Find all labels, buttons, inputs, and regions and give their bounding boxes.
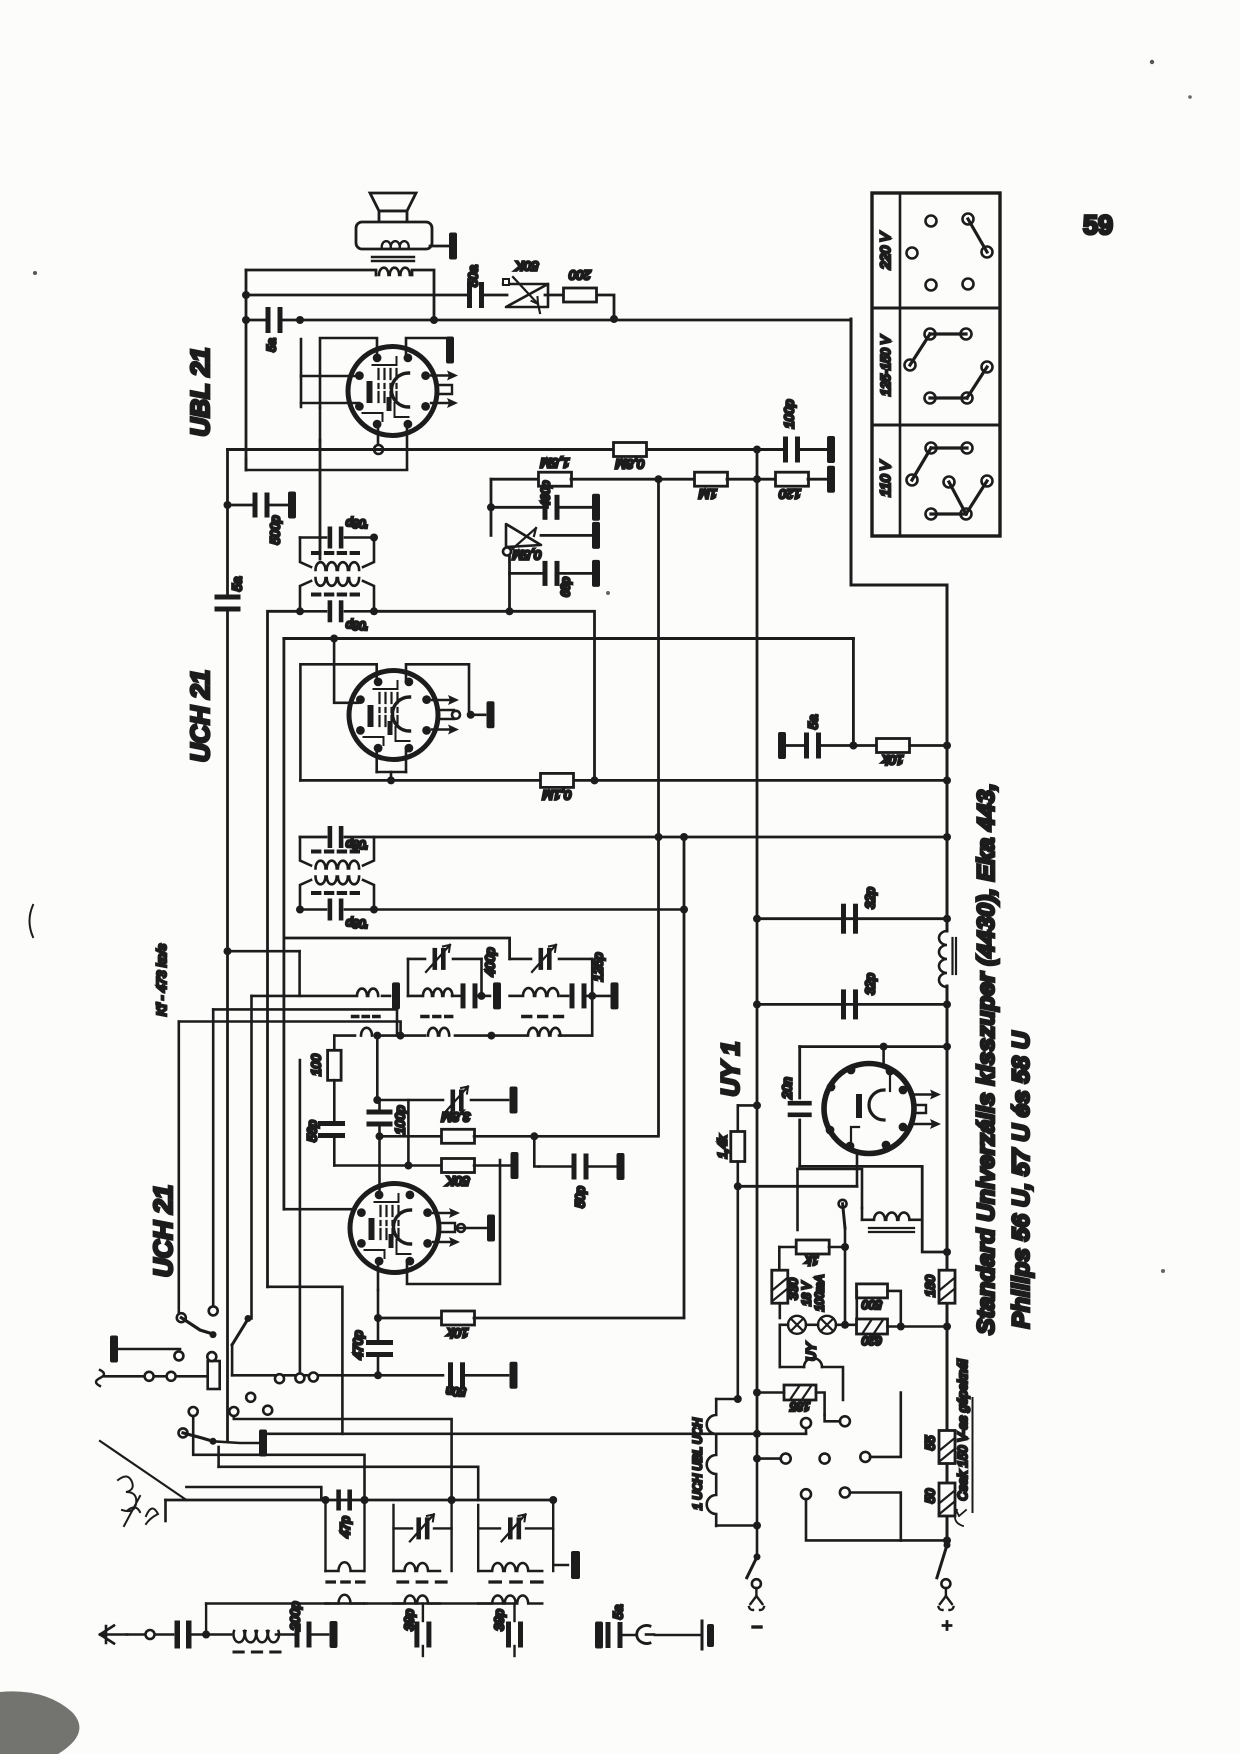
junction 491 y507 xyxy=(487,503,495,511)
selector 110V terminal 5 xyxy=(982,476,993,487)
switch blade diag 1 xyxy=(232,1319,248,1345)
wire 50K row b xyxy=(474,1164,510,1167)
wire avc row y507 xyxy=(491,506,543,509)
coil row1 small xyxy=(357,989,378,996)
terminal bar y1100 xyxy=(510,1087,518,1114)
resistor 120 xyxy=(776,472,809,486)
svg-text:'03p: '03p xyxy=(346,838,369,852)
phono hook xyxy=(637,1626,650,1644)
junction IF1 top right xyxy=(370,534,378,542)
G2 cap lead xyxy=(422,1604,424,1622)
trimmer cap osc 1 xyxy=(426,945,450,972)
G3 box right xyxy=(552,1500,554,1571)
capacitor 200p xyxy=(295,1622,312,1648)
selector 125-150V terminal 4 xyxy=(982,362,993,373)
wire left column x246 xyxy=(245,270,248,470)
choke on HT spine xyxy=(939,931,947,987)
arrow UCH2 lower xyxy=(433,1237,460,1247)
junction 32p row1 right xyxy=(943,915,951,923)
selector 220V terminal 4 xyxy=(982,247,993,258)
svg-text:3,8M: 3,8M xyxy=(441,1110,470,1125)
wire UY1 cathode down xyxy=(856,1153,859,1186)
terminal bar antenna xyxy=(330,1621,338,1648)
wire UY1 box left lower xyxy=(798,1120,801,1166)
osc core dashes 2 xyxy=(422,1015,452,1018)
switch contact b3 xyxy=(174,1351,183,1360)
wire mains bus y320 b xyxy=(283,319,851,322)
svg-text:500: 500 xyxy=(862,1298,882,1312)
junction spine 1326 xyxy=(943,1323,951,1331)
routing line L1 xyxy=(234,1416,452,1500)
capacitor 39p G2 xyxy=(414,1622,431,1648)
output transformer core line 2 xyxy=(372,260,414,262)
wire y638 corner down right xyxy=(852,639,855,746)
junction UCH1 cathode bus xyxy=(387,776,395,784)
selector 125-150V terminal 5 xyxy=(925,393,936,404)
chassis hook xyxy=(646,1633,654,1636)
scan speck c xyxy=(33,271,37,275)
wire x684 long xyxy=(683,837,686,1317)
wire UY1 cathode to 14k node xyxy=(738,1185,857,1188)
G2 core dashes xyxy=(398,1580,446,1583)
wire 5a filter row b xyxy=(819,744,876,747)
selector 220V terminal 1 xyxy=(926,216,937,227)
resistor 50K osc xyxy=(442,1159,475,1173)
tap circle 1 xyxy=(801,1418,811,1428)
wire x299 down to coils xyxy=(298,951,301,996)
junction 10k spine xyxy=(943,742,951,750)
wire coil row1 a xyxy=(252,995,356,998)
wire blade bottom drop xyxy=(231,1345,234,1376)
wire 0.1M bus a xyxy=(300,779,540,782)
svg-text:185: 185 xyxy=(790,1400,810,1414)
G3 box left xyxy=(477,1505,479,1571)
wire UY1 box left top xyxy=(800,1045,947,1048)
wire y1375 row b xyxy=(378,1374,443,1377)
capacitor 470p xyxy=(366,1340,393,1357)
wire left column x227 upper xyxy=(226,450,229,597)
voltage selector outer box xyxy=(872,193,1000,536)
wire switch2 bar link xyxy=(213,1441,258,1443)
wire UY1 box left upper xyxy=(798,1047,801,1098)
svg-text:59: 59 xyxy=(1083,210,1113,240)
capacitor 5a phono xyxy=(606,1622,623,1648)
minus switch pivot xyxy=(754,1553,761,1560)
resistor 185 xyxy=(784,1385,816,1400)
capacitor 400p xyxy=(543,495,560,520)
pencil diagonal mark xyxy=(100,1441,186,1500)
UCH2 side tab xyxy=(441,1223,455,1232)
wire avc drop to pot xyxy=(490,507,493,535)
wire UCH2 grid from mixer xyxy=(378,1136,381,1194)
antenna coil core xyxy=(234,1651,280,1654)
G1 core dashes xyxy=(327,1580,364,1583)
G1 row2 sides b xyxy=(364,1602,367,1604)
coil row1 right xyxy=(523,988,558,996)
switch arm 1 xyxy=(181,1318,213,1334)
wire antenna row e xyxy=(311,1633,328,1636)
G1 box right xyxy=(363,1500,365,1571)
selector 125-150V terminal 6 xyxy=(962,393,973,404)
wire coil row1 b xyxy=(382,995,390,998)
trimmer cap G3 xyxy=(502,1514,526,1541)
terminal bar switch 2 xyxy=(259,1430,267,1457)
UBL side tab xyxy=(438,385,452,394)
wire y1375 row c xyxy=(465,1374,508,1377)
filament choke coil xyxy=(874,1213,909,1220)
wire tap 6 drop xyxy=(806,1499,901,1540)
tap circle 5 xyxy=(860,1452,870,1462)
wire UY bump lead b xyxy=(780,1366,804,1369)
svg-text:220 V: 220 V xyxy=(877,231,893,270)
wire trimmer row right b xyxy=(559,958,592,961)
UCH1 side tab xyxy=(440,710,454,719)
wire 14k stub xyxy=(738,1104,757,1107)
svg-text:180: 180 xyxy=(923,1274,938,1296)
selector 220V terminal 5 xyxy=(926,280,937,291)
wire band column x213 xyxy=(212,1009,215,1305)
switch contact c4 xyxy=(246,1393,255,1402)
wire choke right lead xyxy=(911,1219,922,1222)
UY1 side tab xyxy=(914,1105,926,1113)
capacitor 5a left column xyxy=(215,595,241,612)
svg-text:39p: 39p xyxy=(402,1609,417,1631)
wire 1k to lamps link xyxy=(844,1247,847,1325)
svg-text:UCH 21: UCH 21 xyxy=(148,1185,178,1277)
terminal bar avc 400p xyxy=(592,494,600,521)
scan smudge bottom-left corner xyxy=(0,1691,79,1754)
capacitor 20n xyxy=(788,1101,812,1117)
scan speck b xyxy=(1188,95,1192,99)
svg-text:10k: 10k xyxy=(881,753,903,768)
capacitor 32p lower xyxy=(841,989,858,1019)
wire 185 left xyxy=(757,1391,784,1394)
potentiometer 50K xyxy=(503,277,548,313)
antenna coil xyxy=(234,1631,280,1642)
wire HT bus below 50 xyxy=(946,1517,949,1545)
junction bus B x658 xyxy=(655,475,663,483)
wire IF1 bottom left down xyxy=(268,611,301,1287)
svg-text:50a: 50a xyxy=(466,265,481,287)
terminal bar 500p xyxy=(288,492,296,519)
wire trimmer right drop xyxy=(591,959,594,1036)
junction bus B x757 xyxy=(753,475,761,483)
terminal bar row1 b xyxy=(493,982,501,1009)
wire bus y837 b xyxy=(345,836,947,839)
terminal bar row1 a xyxy=(392,982,400,1009)
routing line L4 drop xyxy=(477,1467,480,1500)
capacitor .03p IF1 bottom xyxy=(328,600,344,622)
junction 10k row xyxy=(374,1314,382,1322)
IF1 upper can xyxy=(300,538,374,568)
wire UCH2 anode down xyxy=(377,1290,380,1318)
selector 125-150V terminal 2 xyxy=(961,329,972,340)
wire chain bottom xyxy=(716,1524,757,1527)
capacitor 100p mixer xyxy=(367,1110,393,1127)
potentiometer 0.5M xyxy=(506,524,541,547)
wire x283 down xyxy=(282,639,285,1210)
wire IF1 bottom xyxy=(300,610,326,613)
selector 110V link e xyxy=(931,512,966,515)
speaker voice coil xyxy=(382,241,409,248)
switch pivot 2 xyxy=(210,1438,217,1445)
wire UY1 box bottom xyxy=(800,1166,947,1252)
switch contact b2 xyxy=(167,1372,176,1381)
choke core mark 2 xyxy=(955,938,957,974)
wire band column x180 xyxy=(178,1022,181,1314)
wire pot to bar y535 xyxy=(541,534,592,537)
terminal bar 68p xyxy=(592,560,600,587)
svg-text:1 UCH UBL UCH: 1 UCH UBL UCH xyxy=(691,1418,705,1510)
svg-text:0,1M: 0,1M xyxy=(542,788,571,803)
junction lamp row x845 xyxy=(841,1321,849,1329)
wire trimmer row right xyxy=(510,958,531,961)
junction 3.8M x534 xyxy=(530,1132,538,1140)
svg-text:620: 620 xyxy=(862,1334,882,1348)
G2 coil row1 xyxy=(394,1563,441,1571)
wire coil row2 c xyxy=(455,1034,526,1037)
coil row2 mid xyxy=(428,1028,449,1036)
resistor 1M xyxy=(695,472,728,486)
junction y638 x334 xyxy=(330,635,338,643)
svg-text:Standard Univerzális kisszuper: Standard Univerzális kisszuper (4430), E… xyxy=(973,783,1000,1335)
padder trimmer box xyxy=(208,1361,220,1389)
junction UY1 box spine xyxy=(943,1043,951,1051)
wire bus B y479 c xyxy=(727,478,778,481)
wire coil bottoms link xyxy=(206,1602,514,1604)
wire coil row2 b xyxy=(382,1034,425,1037)
voltage selector divider 125-150V/110V xyxy=(872,424,1000,427)
resistor 10k anode xyxy=(877,739,910,753)
routing line L2 xyxy=(268,1433,806,1436)
heater chain bumps xyxy=(707,1399,717,1526)
wire bus A y449 b xyxy=(647,448,786,451)
tap circle 3 xyxy=(781,1454,791,1464)
wire UY bump lead xyxy=(778,1325,781,1367)
junction grid 3.8M row xyxy=(376,1132,384,1140)
routing line L4 xyxy=(219,1466,479,1469)
wire tap 7 lead xyxy=(850,1493,901,1541)
svg-text:55: 55 xyxy=(923,1435,938,1450)
switch pivot 1 xyxy=(210,1331,217,1338)
wire 1k row a xyxy=(779,1246,796,1249)
scan speck e xyxy=(1161,1269,1165,1273)
wire antenna input row b xyxy=(154,1375,166,1378)
wire UBL left box xyxy=(300,339,303,407)
wire x757 mid xyxy=(756,919,759,1434)
svg-text:5a: 5a xyxy=(265,338,279,352)
selector 110V link c xyxy=(949,482,966,514)
wire antenna row a xyxy=(127,1633,145,1636)
G3 cap lead lower xyxy=(513,1646,515,1656)
wire left column x227 lower xyxy=(226,610,229,1441)
G3 coil row2 xyxy=(478,1596,542,1604)
wire transformer primary left lead xyxy=(246,270,376,275)
svg-text:50K: 50K xyxy=(445,1174,469,1189)
plus fork xyxy=(939,1588,954,1610)
IF2 lower can xyxy=(300,880,374,910)
junction IF1 bottom left xyxy=(296,607,304,615)
wire plus feed xyxy=(901,1539,947,1542)
wire UBL screen x320 upper xyxy=(319,408,322,440)
mains switch contact xyxy=(839,1200,847,1208)
capacitor 50a xyxy=(467,282,484,308)
wire UY1 plate lead xyxy=(882,1047,885,1063)
resistor 50 xyxy=(939,1483,955,1516)
svg-text:18 V: 18 V xyxy=(802,1281,814,1306)
junction y837 x684 xyxy=(680,833,688,841)
junction y837 x947 xyxy=(943,833,951,841)
wire selector to mains bus xyxy=(851,319,947,931)
lamp 18V a xyxy=(788,1316,806,1334)
wire 1k left drop xyxy=(778,1247,781,1270)
capacitor 50p xyxy=(572,1154,589,1180)
wire 68p row xyxy=(510,572,544,575)
G2 coil row2 xyxy=(394,1596,441,1604)
wire antenna row c xyxy=(190,1633,231,1636)
mains switch blade xyxy=(843,1204,845,1228)
wire mains bus y320 a xyxy=(246,319,265,322)
svg-text:1,4k: 1,4k xyxy=(716,1135,730,1159)
svg-text:200p: 200p xyxy=(288,1602,303,1632)
junction 500p row xyxy=(224,501,232,509)
resistor 500 xyxy=(857,1284,888,1298)
svg-text:5a: 5a xyxy=(230,577,245,591)
wire spine x757 long xyxy=(756,479,759,919)
wire mains top link xyxy=(798,1169,863,1208)
junction tap row a xyxy=(753,1455,761,1463)
junction 434 on bus320 xyxy=(430,316,438,324)
selector 220V terminal 2 xyxy=(963,214,974,225)
selector 220V link xyxy=(968,219,987,252)
wire 5a filter row a xyxy=(786,744,803,747)
wire antenna row d xyxy=(276,1633,294,1636)
choke core mark 1 xyxy=(951,938,953,974)
wire audio bus y295 a xyxy=(246,294,468,297)
osc staircase line b xyxy=(213,1009,397,1035)
wire UBL lower-left pin lead xyxy=(301,402,359,405)
wire UCH1 under drop xyxy=(390,772,393,780)
switch contact c3 xyxy=(263,1406,272,1415)
svg-text:'03p: '03p xyxy=(346,517,369,531)
resistor 100 xyxy=(328,1050,342,1080)
svg-text:56p: 56p xyxy=(305,1120,320,1142)
tube UBL21 xyxy=(348,347,437,436)
switch blade top dot xyxy=(245,1315,252,1322)
G3 cap lead xyxy=(513,1604,515,1622)
wire 68p row b xyxy=(559,572,592,575)
G2 trimmer row xyxy=(394,1527,413,1529)
routing line L3 xyxy=(193,1416,364,1500)
junction IF2 bottom left xyxy=(296,906,304,914)
wire speaker body to terminal xyxy=(430,245,448,248)
junction antenna x206 xyxy=(202,1631,210,1639)
capacitor 39p G3 xyxy=(506,1622,523,1648)
svg-text:0,5M: 0,5M xyxy=(512,548,541,563)
capacitor antenna series xyxy=(175,1621,192,1649)
arrow UY1 upper xyxy=(914,1090,941,1100)
selector 220V terminal 3 xyxy=(907,248,918,259)
junction row1 x481 xyxy=(478,992,486,1000)
routing line L2 tail xyxy=(805,1428,808,1434)
wire bus A y449 c xyxy=(797,448,826,451)
IF1 primary coil xyxy=(316,562,360,570)
capacitor .03p IF2 top xyxy=(328,826,344,848)
capacitor 47p xyxy=(336,1490,352,1511)
terminal UCH1 plug circle xyxy=(452,711,460,719)
wire y1375 row a xyxy=(232,1374,375,1377)
pencil mark left edge xyxy=(30,905,34,937)
IF1 core dashes upper xyxy=(313,551,358,555)
G2 trimmer row b xyxy=(434,1527,452,1529)
junction bus1500 G1L xyxy=(322,1496,330,1504)
selector 110V link a xyxy=(931,446,967,449)
wire antenna row b xyxy=(155,1633,173,1636)
wire UCH1 grid top loop left xyxy=(300,664,376,780)
wire bus A y449 xyxy=(228,448,614,451)
wire HT bus power column xyxy=(946,1046,949,1270)
svg-text:UCH 21: UCH 21 xyxy=(185,670,215,762)
svg-text:50K: 50K xyxy=(514,259,538,274)
wire mains from choke corner xyxy=(796,1169,799,1230)
junction x853 y745 xyxy=(849,742,857,750)
IF2 core dashes upper xyxy=(313,850,358,854)
terminal bar G3 xyxy=(571,1551,580,1579)
selector 125-150V terminal 3 xyxy=(905,360,916,371)
svg-text:Philips 56 U, 57 U és 58 U: Philips 56 U, 57 U és 58 U xyxy=(1008,1030,1035,1328)
wire coil row2 a xyxy=(334,1034,355,1037)
IF2 secondary coil xyxy=(316,877,360,885)
G3 trimmer row b xyxy=(526,1527,553,1529)
wire coil row1 f xyxy=(510,995,521,998)
terminal bar 5a phono left xyxy=(595,1622,603,1649)
tube UCH21 second xyxy=(350,1184,439,1273)
wire tap 5 lead xyxy=(870,1393,901,1457)
wire x379 below cap xyxy=(378,1125,381,1136)
wire x534 drop xyxy=(534,1136,539,1166)
wire HT bus between 55 and 50 xyxy=(946,1464,949,1482)
wire HT bus below 180 xyxy=(946,1303,949,1430)
svg-text:100p: 100p xyxy=(782,400,797,429)
junction x509 on IF1 bottom xyxy=(506,607,514,615)
junction bus1500 G2R xyxy=(448,1496,456,1504)
tap circle 6 xyxy=(801,1489,811,1499)
tap circle 2 xyxy=(840,1416,850,1426)
wire 500p row xyxy=(228,504,254,507)
osc core dashes 1 xyxy=(353,1015,380,1018)
coil row2 small xyxy=(361,1028,372,1036)
svg-text:47p: 47p xyxy=(338,1516,353,1538)
terminal bar UBL right xyxy=(446,337,454,364)
svg-text:50p: 50p xyxy=(573,1186,588,1208)
plus switch pivot xyxy=(944,1542,951,1549)
capacitor 125p xyxy=(570,983,587,1008)
wire 0.5M down to 68p row xyxy=(508,556,511,573)
wire lamp row a xyxy=(780,1324,788,1327)
wire audio bus y295 b xyxy=(483,294,507,297)
wire 50p row xyxy=(539,1165,572,1168)
IF2 primary coil xyxy=(316,861,360,869)
svg-text:UBL 21: UBL 21 xyxy=(185,347,215,436)
wire choke left lead xyxy=(862,1219,872,1222)
svg-text:125p: 125p xyxy=(591,953,606,982)
capacitor row1 mid xyxy=(461,983,478,1008)
wire coil row1 e xyxy=(477,995,490,998)
G3 trimmer row xyxy=(478,1527,500,1529)
junction UY1 top plate xyxy=(880,1043,888,1051)
svg-text:UY: UY xyxy=(804,1342,819,1361)
junction left column at bus320 xyxy=(242,316,250,324)
